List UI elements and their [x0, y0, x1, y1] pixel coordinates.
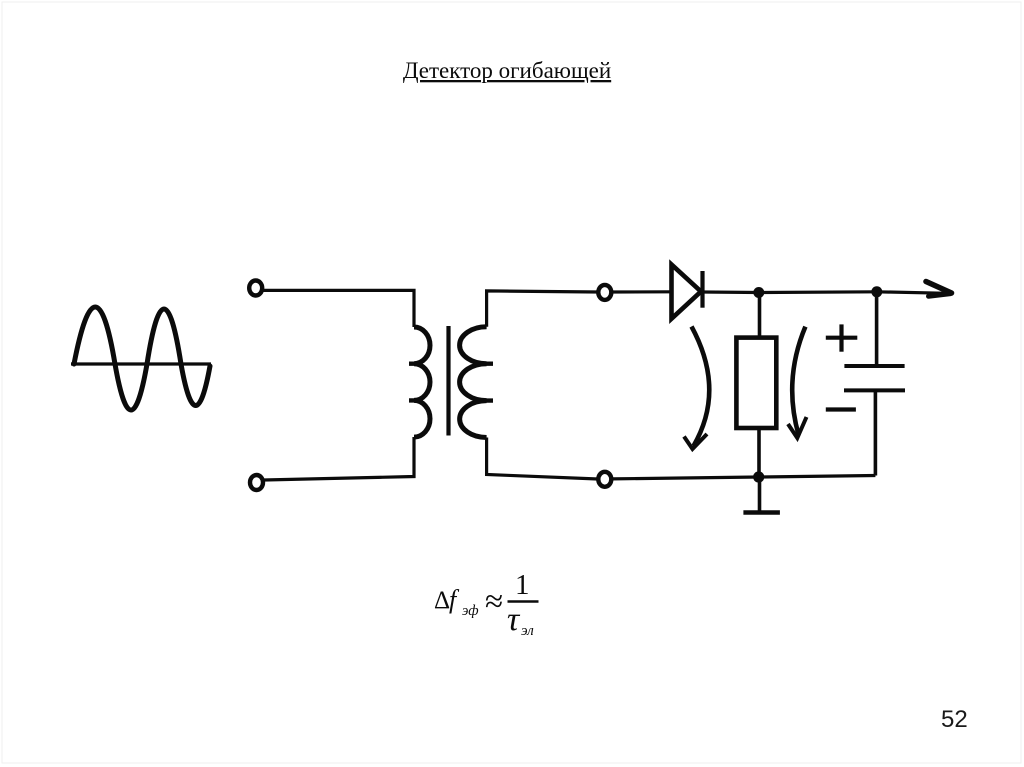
wire: transformer secondary top to output top terminal [487, 291, 598, 327]
wire: node B down to capacitor top plate [875, 292, 879, 365]
wire: resistor bottom to node C [757, 428, 761, 477]
bottom rail wire: node C to capacitor branch [759, 476, 876, 478]
bottom rail wire: output bottom terminal to node C [612, 477, 759, 479]
minus polarity label [826, 407, 856, 411]
capacitor top plate [844, 364, 904, 368]
plus polarity label [826, 336, 858, 340]
transformer primary winding [414, 327, 430, 437]
wire: node A down to resistor [758, 293, 762, 338]
svg-text:1: 1 [515, 569, 530, 601]
svg-text:52: 52 [941, 706, 968, 733]
wire: node B to output arrow [877, 292, 948, 294]
wire: transformer secondary bottom to output bottom terminal [487, 438, 598, 480]
diode triangle (anode) [672, 265, 702, 319]
svg-text:эл: эл [521, 623, 534, 639]
transformer core [446, 326, 450, 436]
node C junction dot [753, 471, 764, 482]
wire: diode cathode to node A [703, 290, 759, 294]
formula: fraction bar [508, 600, 539, 603]
svg-text:τ: τ [507, 601, 521, 638]
input sine-wave signal symbol: waveform [74, 307, 210, 410]
svg-text:эф: эф [462, 603, 479, 619]
diode cathode bar [700, 271, 704, 308]
node B junction dot [871, 286, 882, 297]
wire: transformer primary bottom to input bottom terminal [264, 437, 414, 480]
wire: node C to ground [758, 477, 762, 511]
wire: capacitor bottom plate to bottom rail [874, 390, 878, 475]
svg-text:Δ: Δ [434, 587, 450, 614]
output terminal (bottom) [598, 472, 611, 487]
transformer secondary winding [460, 327, 487, 438]
wire: output top terminal to diode anode [612, 290, 672, 293]
input terminal (top) [249, 281, 262, 296]
resistor body [736, 338, 776, 428]
wire: input top terminal to transformer primary [263, 290, 415, 327]
node A junction dot [753, 287, 764, 298]
capacitor bottom plate [844, 388, 905, 392]
output arrowhead [926, 282, 952, 294]
wire: node A to node B [759, 290, 877, 294]
svg-text:≈: ≈ [485, 584, 503, 620]
svg-text:f: f [449, 585, 460, 614]
output terminal (top) [598, 285, 611, 300]
svg-text:Детектор огибающей: Детектор огибающей [403, 58, 611, 83]
current direction curved arrow (right, around resistor/capacitor) [792, 327, 805, 435]
input terminal (bottom) [250, 475, 263, 490]
input sine-wave signal symbol: axis [71, 362, 211, 365]
ground bar [743, 510, 780, 514]
current direction curved arrow (left, around diode/resistor) [692, 327, 710, 447]
